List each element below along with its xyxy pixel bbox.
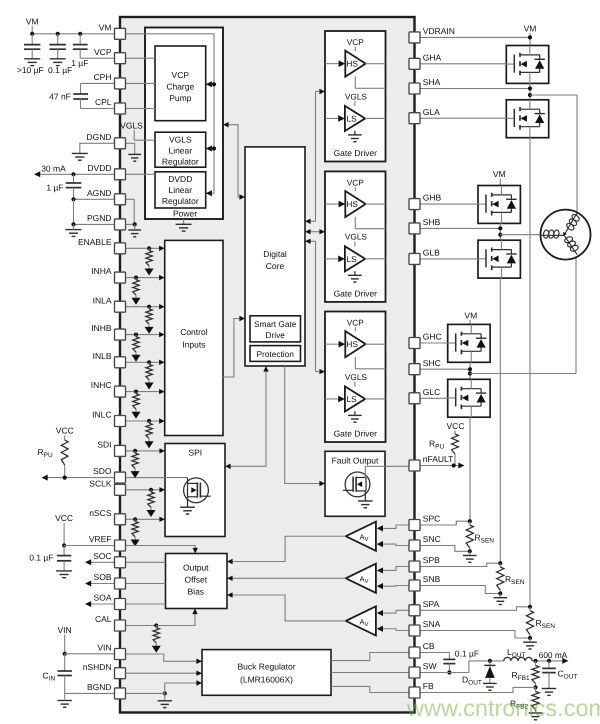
sense amplifier Av C (phase C) [346,522,376,551]
HS input arrow C [325,343,339,345]
svg-text:INLB: INLB [93,351,112,361]
pin PGND [115,219,126,230]
control inputs block [165,240,223,435]
wire VCP pin to charge pump [126,57,156,59]
svg-text:VGLS: VGLS [120,121,143,131]
svg-text:Fault Output: Fault Output [332,456,379,466]
svg-text:LS: LS [347,394,358,404]
svg-text:INLA: INLA [93,295,112,305]
output offset bias block [166,554,228,609]
transistor Q5 high-side MOSFET phase C [448,324,490,362]
svg-text:Inputs: Inputs [182,340,205,350]
pin GLA [409,113,420,124]
svg-text:VM: VM [99,22,112,32]
svg-text:1 µF: 1 µF [71,58,88,68]
wire nSCS pin to control logic [126,518,160,520]
wire HS output B [365,203,385,205]
svg-text:RFB1: RFB1 [512,670,530,682]
wire SDI pin to control logic [126,450,160,452]
fault output MOSFET [345,472,370,497]
wire GLB to gate [420,258,478,260]
svg-text:VDRAIN: VDRAIN [423,26,455,36]
svg-text:HS: HS [346,199,358,209]
svg-text:VM: VM [464,311,477,321]
svg-text:ENABLE: ENABLE [78,237,112,247]
pin DGND [115,138,126,149]
svg-text:CPL: CPL [95,97,112,107]
svg-text:GHB: GHB [423,193,442,203]
ground RSEN phase B [499,594,501,598]
svg-text:VM: VM [524,24,537,34]
svg-text:Power: Power [173,209,197,219]
wire SPI to digital core (bidirectional) [231,372,266,466]
junction dot INLB pulldown [147,360,151,364]
pulldown resistor CAL [155,626,157,628]
transistor Q1 high-side MOSFET phase A [506,46,548,84]
ground VREF cap [56,570,72,572]
capacitor 1uF DVDD [73,174,75,183]
wire INHC pin to control logic [126,391,160,393]
gate driver block A [325,31,386,162]
wire buck output node [532,660,564,662]
svg-text:LOUT: LOUT [507,647,525,659]
junction dot PGND [71,222,75,226]
ground below power box [183,219,185,224]
junction dot INHB pulldown [134,333,138,337]
pin GHC [409,338,420,349]
svg-text:SNC: SNC [423,534,441,544]
wire LS output A [365,117,386,119]
fault output block [325,451,385,516]
svg-text:CPH: CPH [94,72,112,82]
ground DGND left [72,152,88,154]
LS input arrow C [325,398,338,400]
motor winding phase A (upper right coil) [562,211,582,237]
svg-text:RSEN: RSEN [505,574,525,586]
pin SHA [409,83,420,94]
wire SDO output [44,477,115,479]
junction dot phase B motor tap [498,233,502,237]
ground 0.1uF cap [50,58,66,60]
svg-text:DVDD: DVDD [87,163,111,173]
pulldown resistor INHB [135,335,137,337]
svg-text:SPB: SPB [423,555,440,565]
LS driver amp B [354,241,356,246]
wire CAL pin [126,625,157,627]
wire SOA output [88,603,115,605]
wire HS output A [365,63,385,65]
pulldown resistor INLA [148,307,150,309]
HS driver amp C [354,327,356,331]
svg-text:AGND: AGND [87,188,112,198]
svg-text:0.1 µF: 0.1 µF [29,553,53,563]
pin AGND [115,194,126,205]
wire VIN to buck regulator [126,654,197,661]
gate driver block B [325,171,386,302]
svg-text:Smart Gate: Smart Gate [254,319,297,329]
svg-text:0.1 µF: 0.1 µF [48,65,72,75]
svg-text:DVDD: DVDD [168,174,192,184]
LS input arrow B [325,258,338,260]
svg-text:Charge: Charge [166,82,194,92]
resistor RSEN phase C [469,521,471,525]
capacitor COUT [548,661,550,669]
junction dot FB node [533,685,537,689]
wire GHB to gate [420,203,478,205]
junction dot nSCS pulldown [133,517,137,521]
junction dot DVDD cap [71,172,75,176]
svg-text:(LMR16006X): (LMR16006X) [240,675,293,685]
svg-text:INHA: INHA [91,266,112,276]
wire Av A output to output offset bias [229,595,346,621]
svg-text:RPU: RPU [38,447,53,459]
svg-text:Linear: Linear [168,185,192,195]
wire CAL to output offset bias [156,614,195,626]
junction dot phase C top [468,519,472,523]
pin SDI [115,445,126,456]
svg-text:Gate Driver: Gate Driver [334,148,378,158]
bus digital core to gate driver A [315,92,317,222]
ground DGND right [128,153,141,155]
svg-text:SHC: SHC [423,358,441,368]
wire PGND pin left [74,223,115,225]
wire phase B SP jog [420,563,500,566]
bus digital core to gate driver C [315,241,317,371]
pin GLC [409,393,420,404]
svg-text:Gate Driver: Gate Driver [334,288,378,298]
fault MOSFET ground [364,491,366,501]
gate driver block C [325,312,386,443]
capacitor 0.1uF bootstrap [448,653,450,660]
svg-text:VGLS: VGLS [345,91,368,101]
svg-text:HS: HS [346,339,358,349]
wire VM to VM pin [32,33,114,35]
pulldown resistor INHA [135,278,137,280]
wire buck to FB pin [331,686,409,692]
svg-text:VCP: VCP [94,47,112,57]
ground BGND [164,693,166,700]
wire CPH pin [81,82,115,84]
wire VDRAIN to VM [420,36,530,38]
wire VCP pin to cap [80,57,114,59]
svg-text:INLC: INLC [92,410,111,420]
pin BGND [115,688,126,699]
wire VREF pin [64,545,114,547]
diode DOUT freewheeling [489,661,491,666]
smart gate drive block [250,316,301,342]
resistor RPU nFAULT [452,434,459,454]
wire Av C output to output offset bias [229,536,346,561]
junction dot ENABLE pulldown [147,246,151,250]
pin SOA [115,599,126,610]
junction dot INLA pulldown [147,305,151,309]
svg-text:RPU: RPU [429,439,444,451]
transistor Q4 low-side MOSFET phase B [478,240,520,278]
wire phase A SN jog [420,631,530,639]
ground DOUT [483,682,497,684]
svg-text:GLC: GLC [423,387,440,397]
svg-text:SNB: SNB [423,574,441,584]
pin INHA [115,272,126,283]
pin VCP [115,53,126,64]
pin SPA [409,605,420,616]
svg-text:CAL: CAL [95,614,112,624]
svg-text:VCP: VCP [347,318,365,328]
transistor Q2 low-side MOSFET phase A [506,100,548,138]
wire VM internal bus to regulators [126,33,215,35]
wire nSHDN to buck regulator [126,672,197,674]
svg-text:30 mA: 30 mA [41,163,66,173]
svg-text:SOB: SOB [94,572,112,582]
wire DGND pin left to ground [80,143,115,153]
svg-text:SPA: SPA [423,599,440,609]
pin SPB [409,561,420,572]
svg-text:Bias: Bias [188,587,205,597]
svg-text:Protection: Protection [257,349,295,359]
svg-text:Digital: Digital [263,249,287,259]
svg-text:nFAULT: nFAULT [423,454,454,464]
svg-text:CB: CB [423,641,435,651]
HS input arrow A [325,63,339,65]
SPI MOSFET ground [187,497,189,507]
svg-text:SCLK: SCLK [89,478,112,488]
pulldown resistor SDI [134,451,136,453]
svg-text:BGND: BGND [87,682,112,692]
svg-text:GHA: GHA [423,52,442,62]
wire DVDD pin to regulator [126,173,156,175]
svg-text:DOUT: DOUT [462,675,482,687]
svg-text:INHB: INHB [91,323,112,333]
HS input arrow B [325,203,339,205]
wire BGND pin [65,692,115,694]
wire CB pin to bootstrap cap [420,652,449,654]
wire BGND to buck regulator [165,683,197,693]
sense amplifier Av A (phase A) [346,606,376,635]
wire phase B source to sense [499,278,501,563]
buck regulator block [202,650,331,696]
motor winding star point [563,232,566,236]
junction dot 0.1uF cap [56,32,60,36]
wire INLC pin to control logic [126,420,160,422]
wire SPC to Av input [382,525,409,528]
svg-text:VREF: VREF [89,534,112,544]
svg-text:www.cntronics.com: www.cntronics.com [406,695,600,721]
svg-text:Control: Control [180,327,208,337]
svg-text:GHC: GHC [423,332,442,342]
svg-text:VGLS: VGLS [345,372,368,382]
wire SPA to Av input [382,610,409,613]
wire buck to SW pin [331,672,409,674]
wire AGND pin to cap node [74,198,115,200]
wire SNA to Av input [382,629,409,631]
junction dot PGND right [133,222,137,226]
pin CB [409,647,420,658]
junction dot VDRAIN VM [528,35,532,39]
ground RSEN phase C [469,551,471,555]
pin VM [115,28,126,39]
pin SPC [409,520,420,531]
svg-text:Gate Driver: Gate Driver [334,429,378,439]
wire SPB to Av input [382,567,409,571]
pin GLB [409,253,420,264]
pulldown resistor INHC [135,392,137,394]
svg-text:SHB: SHB [423,217,441,227]
arrow into VGLS regulator [206,146,212,152]
wire protection to fault output [285,366,320,484]
svg-text:SOC: SOC [93,551,111,561]
pin VREF [115,540,126,551]
ground RFB2 [529,712,543,714]
wire SNB to Av input [382,585,409,588]
wire SCLK pin to control logic [126,489,160,491]
svg-text:Drive: Drive [266,330,286,340]
junction dot RFB1 top [533,659,537,663]
capacitor 1uF VCP [79,34,81,45]
svg-text:600 mA: 600 mA [539,650,568,660]
LS driver amp A [354,101,356,106]
svg-text:DGND: DGND [86,132,111,142]
svg-text:GLB: GLB [423,248,440,258]
wire phase C SN jog [420,546,470,552]
svg-text:COUT: COUT [558,669,578,681]
svg-text:RSEN: RSEN [536,618,556,630]
svg-text:VIN: VIN [58,625,72,635]
junction dot phase A motor tap [528,93,532,97]
pulldown resistor ENABLE [148,248,150,250]
svg-text:SPC: SPC [423,514,440,524]
svg-text:Output: Output [183,563,209,573]
wire VREF to output offset bias [126,546,196,549]
wire buck to CB pin [331,653,409,661]
svg-text:LS: LS [347,254,358,264]
motor winding phase C (lower right coil) [562,233,582,257]
svg-text:nSHDN: nSHDN [83,662,112,672]
pin SOB [115,578,126,589]
wire SNC to Av input [382,544,409,545]
svg-text:FB: FB [423,681,434,691]
transistor Q3 high-side MOSFET phase B [478,186,520,224]
svg-text:SHA: SHA [423,77,441,87]
pulldown resistor nSCS [134,519,136,521]
pin SHC [409,364,420,375]
junction dot VREF cap [62,543,66,547]
wire INLA pin to control logic [126,306,160,308]
junction dot phase C bottom [468,549,472,553]
wire SHB node [420,227,500,229]
wire phase A source to sense [529,138,531,607]
pin SHB [409,223,420,234]
wire control inputs to smart gate drive [223,319,239,378]
wire AGND-PGND common [73,199,75,224]
wire LS output C [365,398,386,400]
sense amplifier Av B (phase B) [346,564,376,593]
wire FB pin to divider [420,687,536,692]
svg-text:47 nF: 47 nF [49,91,71,101]
svg-text:RSEN: RSEN [475,533,495,545]
wire AGND pin right [126,199,135,224]
capacitor 47nF flying cap [80,83,82,94]
svg-text:CIN: CIN [43,671,56,683]
svg-text:GLA: GLA [423,107,440,117]
junction dot SHB [498,226,502,230]
ground RSEN phase A [529,638,531,642]
junction dot AGND [71,197,75,201]
junction dot BGND [163,691,167,695]
power group box [145,28,223,220]
pin GHA [409,58,420,69]
pin FB [409,687,420,698]
VGLS linear regulator block [155,132,206,167]
junction dot INLC pulldown [147,419,151,423]
VCP charge pump block [155,46,206,121]
junction dot phase B top [498,561,502,565]
output current arrow 600 mA [562,658,568,664]
pin VIN [115,649,126,660]
pulldown resistor INLB [148,362,150,364]
protection block [250,346,301,362]
junction dot DOUT [488,659,492,663]
svg-text:SNA: SNA [423,619,441,629]
wire phase B SN jog [420,586,500,594]
pin DVDD [115,169,126,180]
wire SHC node [420,368,470,370]
svg-text:VCC: VCC [56,426,74,436]
svg-text:Offset: Offset [185,575,208,585]
wire PGND pin right [126,223,135,225]
resistor RFB2 [535,687,537,691]
arrow into VCP charge pump [206,81,212,87]
svg-text:VIN: VIN [97,643,111,653]
junction dot SHC [468,367,472,371]
wire power box to digital core (bidirectional) [223,122,229,127]
wire phase C to motor [470,373,576,375]
ground AGND/PGND [66,229,82,231]
LS input arrow A [325,117,338,119]
SPI block [165,444,225,537]
IC boundary (gate driver chip body) [120,17,415,713]
svg-text:SW: SW [423,661,437,671]
wire GHA to gate [420,63,506,65]
pin INLB [115,357,126,368]
svg-text:Linear: Linear [168,145,192,155]
resistor RSEN phase B [499,563,501,567]
svg-text:VGLS: VGLS [345,232,368,242]
svg-text:nSCS: nSCS [89,508,112,518]
pulldown resistor SCLK [150,490,152,492]
wire nFAULT output [420,465,459,467]
wire phase C source to sense [469,417,471,521]
pin INHB [115,329,126,340]
svg-text:LS: LS [347,113,358,123]
wire SH sense B [354,217,356,229]
digital core block [245,147,305,366]
pin ENABLE [115,243,126,254]
wire GHC to gate [420,342,448,344]
capacitor 0.1uF VREF [63,546,65,556]
arrow into DVDD regulator [206,190,212,196]
junction dot INHC pulldown [134,390,138,394]
junction dot SHA [528,86,532,90]
svg-text:VCC: VCC [447,421,465,431]
wire LS output B [365,258,386,260]
wire SHA node [420,88,530,90]
wire phase C SP jog [420,521,470,525]
wire HS output C [365,343,385,345]
wire VIN pin [65,653,115,655]
junction dot SDO pullup [63,476,67,480]
svg-text:VCP: VCP [347,37,365,47]
junction dot VCP pump feed [212,82,216,86]
